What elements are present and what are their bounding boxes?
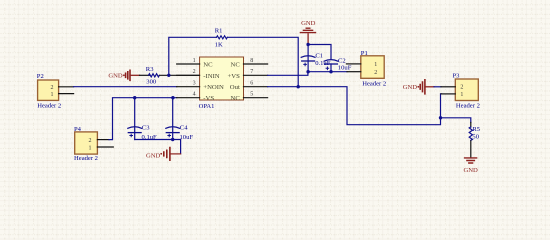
svg-text:GND: GND (403, 84, 418, 91)
svg-text:C4: C4 (180, 125, 188, 132)
pin P3.2 (441, 86, 455, 88)
svg-text:2: 2 (51, 85, 54, 91)
junction (C4 bottom) (171, 138, 174, 141)
ground GND (top, above C1) (300, 20, 315, 45)
junction (C1 bottom / pin7) (306, 70, 309, 73)
svg-text:-VS: -VS (203, 95, 214, 102)
svg-text:+VS: +VS (227, 73, 240, 80)
wire +VS pin7 to cap rail (268, 72, 308, 76)
junction (P3.1 / R5) (439, 116, 442, 119)
svg-text:1: 1 (193, 58, 196, 64)
svg-text:GND: GND (108, 73, 123, 80)
pin 6 (Out) (230, 81, 268, 92)
pin 2 (-ININ) (177, 69, 220, 80)
pin 7 (+VS) (227, 69, 267, 80)
svg-text:1K: 1K (215, 41, 223, 48)
wire R5 to GND (470, 141, 472, 157)
svg-text:R1: R1 (215, 28, 223, 35)
pin P4.2 (97, 139, 109, 141)
capacitor C4 (166, 98, 194, 141)
svg-text:5: 5 (250, 92, 253, 98)
pin P1.2 (347, 71, 361, 73)
connector P1 (361, 50, 386, 87)
wire GND rail (cap tops) (308, 45, 331, 59)
svg-text:1: 1 (460, 92, 463, 98)
svg-text:OPA1: OPA1 (199, 103, 215, 110)
svg-text:Out: Out (230, 84, 240, 91)
op-amp U1 OPA1 (199, 57, 244, 110)
pin 1 (NC) (177, 58, 213, 69)
svg-text:R5: R5 (472, 126, 480, 133)
pin P3.1 (441, 93, 455, 95)
wire P2.2 to U1 pin3 (74, 86, 177, 88)
svg-text:GND: GND (146, 152, 161, 159)
pin P1.1 stub (346, 63, 360, 65)
ground GND (left of R3) (108, 70, 139, 80)
svg-text:P1: P1 (361, 50, 368, 57)
svg-text:NC: NC (231, 95, 241, 102)
connector P4 (74, 126, 98, 162)
svg-text:1: 1 (89, 145, 92, 151)
wire P4.2 up to -VS net (109, 98, 177, 140)
svg-text:P4: P4 (74, 126, 82, 133)
wire +V rail (cap bottoms to P1.2) (308, 71, 347, 73)
svg-text:+NOIN: +NOIN (203, 84, 224, 91)
resistor R5 (469, 126, 481, 141)
svg-text:GND: GND (301, 20, 316, 27)
wire GND to P3.2 (434, 86, 441, 88)
svg-text:2: 2 (89, 138, 92, 144)
svg-text:C2: C2 (338, 57, 346, 64)
svg-text:3: 3 (193, 81, 196, 87)
svg-text:Header 2: Header 2 (37, 102, 61, 109)
junction (C2 bottom) (329, 70, 332, 73)
connector P2 (37, 73, 61, 109)
pin 5 (NC) (231, 92, 268, 103)
svg-text:4: 4 (193, 92, 196, 98)
wire Out net (268, 87, 442, 125)
pin 4 (-VS) (177, 92, 215, 103)
svg-text:8: 8 (250, 58, 253, 64)
svg-text:10uF: 10uF (180, 134, 194, 141)
svg-text:Header 2: Header 2 (456, 103, 480, 110)
capacitor C3 (128, 98, 157, 141)
ground GND (left of P3) (403, 80, 434, 94)
pin P2.1 stub (59, 93, 74, 95)
svg-text:10uF: 10uF (338, 64, 352, 71)
ground GND (below C3/C4) (146, 148, 181, 161)
svg-text:NC: NC (203, 62, 213, 69)
wire R3 to pin2 (160, 74, 200, 76)
svg-text:C1: C1 (315, 53, 323, 60)
svg-text:NC: NC (231, 62, 241, 69)
junction (GND stem / C1 top) (306, 43, 309, 46)
pin 8 (NC) (231, 58, 268, 69)
svg-text:-ININ: -ININ (203, 73, 220, 80)
svg-text:2: 2 (193, 69, 196, 75)
svg-text:1: 1 (51, 92, 54, 98)
pin P4.1 stub (97, 146, 113, 148)
capacitor C1 (301, 45, 331, 72)
junction (C4 top, -VS net) (171, 96, 174, 99)
svg-text:1: 1 (374, 62, 377, 68)
svg-text:7: 7 (250, 69, 253, 75)
svg-text:P2: P2 (37, 73, 44, 80)
svg-text:GND: GND (463, 167, 478, 174)
connector P3 (453, 72, 480, 109)
svg-text:50: 50 (472, 134, 479, 141)
junction (R1 loop / pin2) (167, 74, 170, 77)
svg-text:6: 6 (250, 81, 253, 87)
svg-text:2: 2 (460, 84, 463, 90)
capacitor C2 (324, 57, 352, 71)
wire R5 branch (441, 118, 471, 123)
resistor R1 (215, 28, 228, 49)
wire C3/C4 bottoms to GND (135, 140, 181, 154)
svg-text:Header 2: Header 2 (74, 155, 98, 162)
resistor R3 (140, 66, 160, 85)
svg-text:P3: P3 (453, 72, 461, 79)
svg-text:R3: R3 (146, 66, 154, 73)
svg-text:2: 2 (374, 70, 377, 76)
ground GND (below R5) (463, 158, 478, 174)
svg-text:300: 300 (146, 78, 157, 85)
pin P2.2 (59, 86, 74, 88)
junction (C3 top) (133, 96, 136, 99)
svg-text:C3: C3 (142, 125, 150, 132)
wire feedback loop top (R1 net) (169, 37, 298, 86)
junction (R1 loop / Out) (297, 85, 300, 88)
svg-text:Header 2: Header 2 (362, 80, 386, 87)
pin 3 (+NOIN) (177, 81, 224, 92)
